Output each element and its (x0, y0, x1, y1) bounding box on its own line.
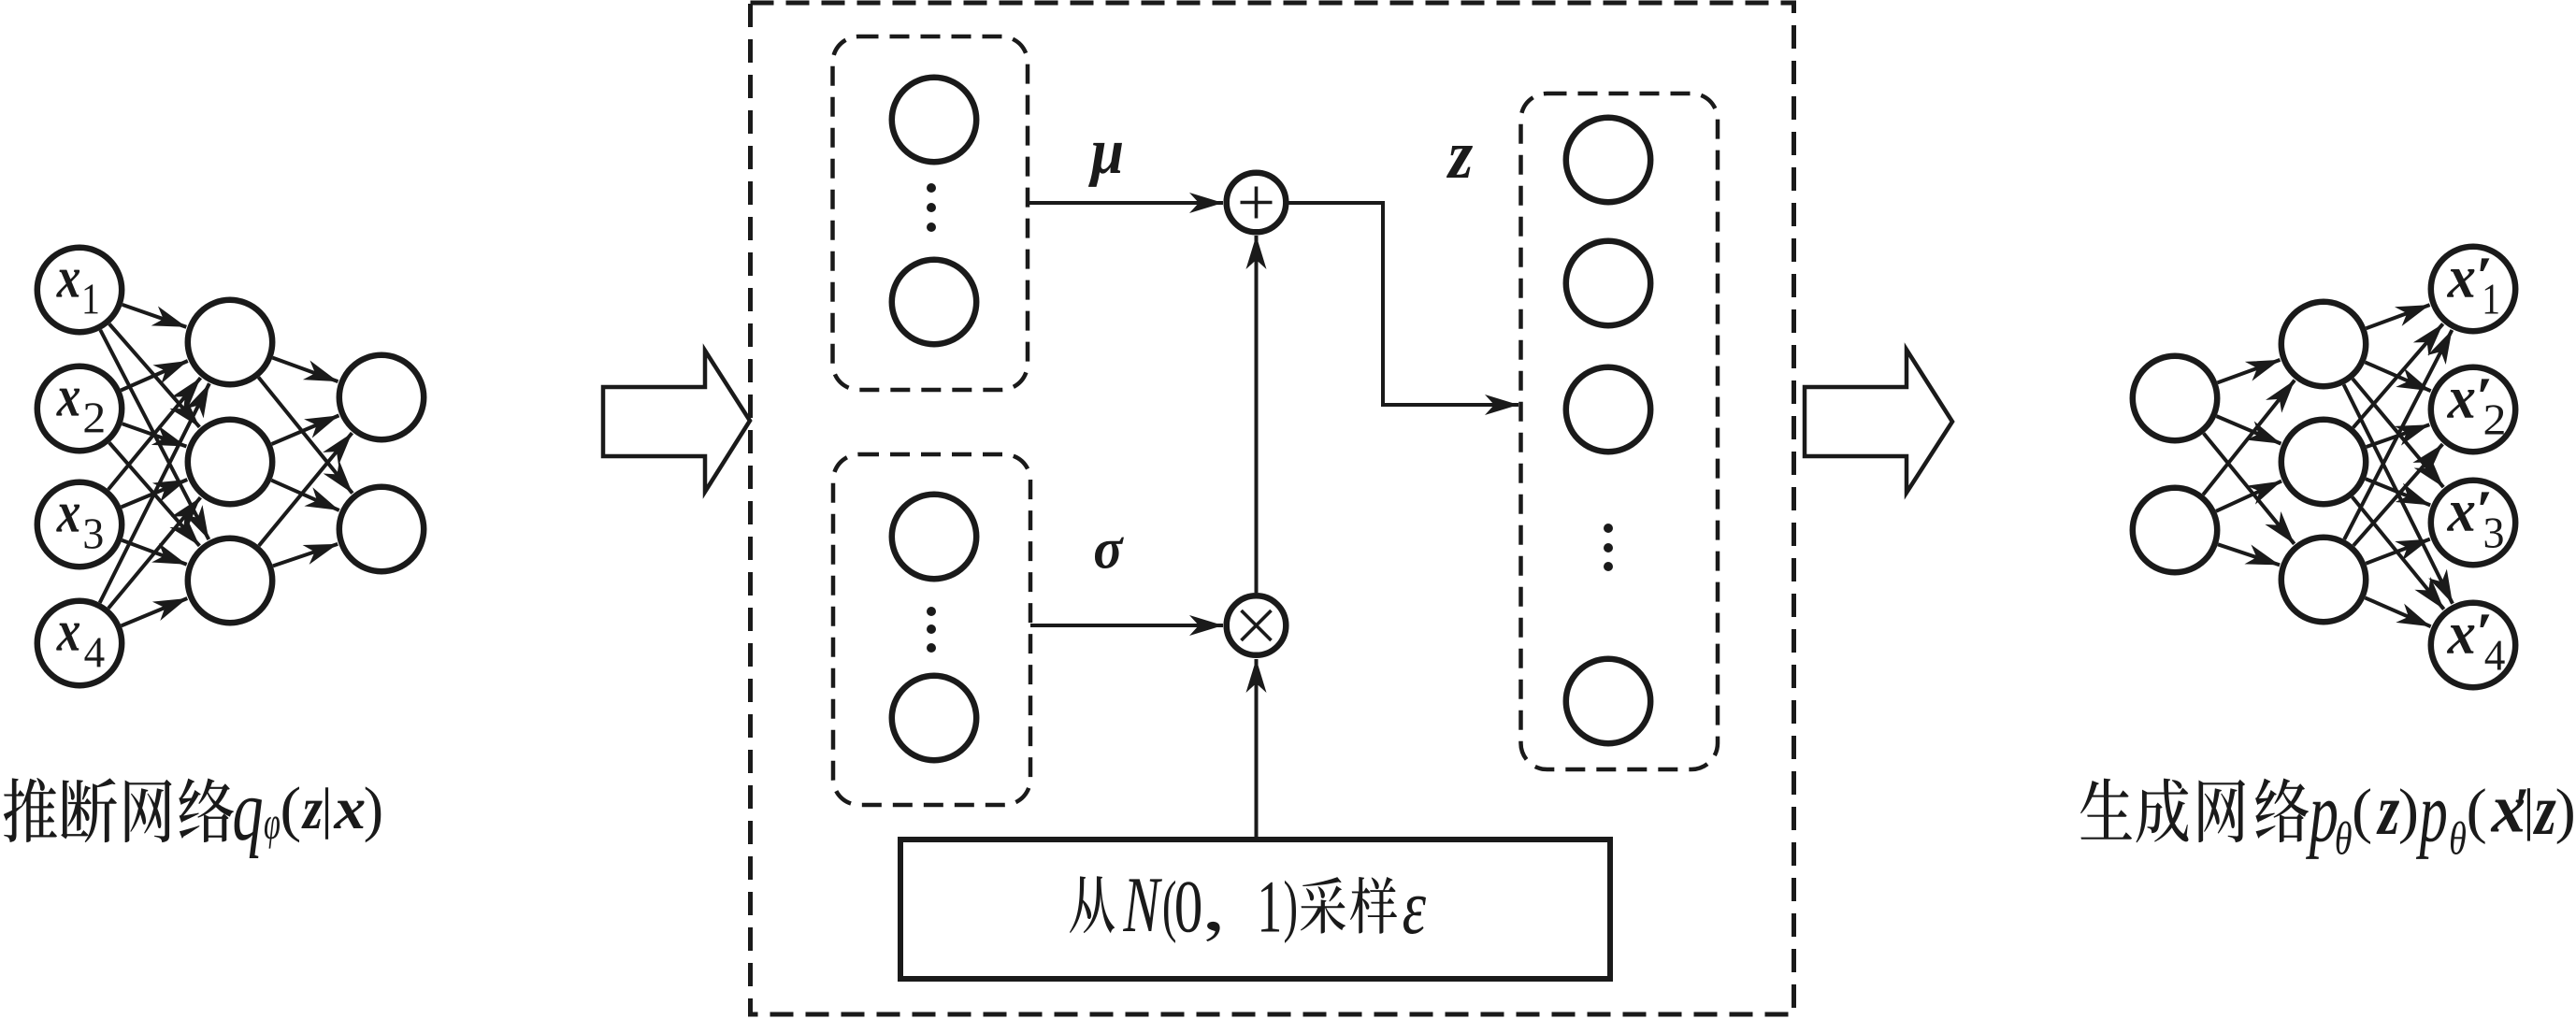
node encoder hidden 1 (188, 300, 272, 384)
op plus junction (1227, 173, 1287, 233)
wire x3-to-Lh1 (108, 378, 201, 489)
node sigma top (892, 495, 976, 579)
node z1 (1566, 118, 1650, 202)
block arrow right (1805, 350, 1952, 493)
wire plus to z (1287, 203, 1519, 405)
label x2 (56, 389, 79, 416)
node encoder hidden 3 (188, 538, 272, 623)
node decoder hidden 2 (2281, 420, 2366, 504)
wire x4-to-Lh1 (100, 383, 209, 603)
wire Ri1-to-Rh1 (2218, 360, 2281, 383)
node encoder out 2 (339, 487, 424, 571)
wire Rh1-to-xp3 (2353, 379, 2443, 487)
label sigma (1095, 538, 1124, 568)
node decoder hidden 3 (2281, 538, 2366, 622)
wire Ri1-to-Rh2 (2217, 416, 2281, 444)
label x3 (56, 505, 79, 532)
wire Rh2-to-xp4 (2353, 497, 2444, 610)
node output xp4 (2431, 603, 2515, 687)
wire Rh3-to-xp1 (2344, 330, 2452, 539)
node decoder in 1 (2133, 356, 2217, 440)
wire x2-to-Lh1 (121, 361, 188, 391)
wire Rh3-to-xp4 (2365, 597, 2430, 626)
label x1 (56, 270, 79, 297)
dots sigma (927, 607, 936, 653)
label inference network (4, 778, 381, 858)
wire x2-to-Lh3 (109, 443, 199, 546)
wire mu to plus (1028, 201, 1223, 205)
dots z (1604, 524, 1613, 571)
wire Rh1-to-xp2 (2365, 362, 2430, 391)
dashed box z layer (1521, 93, 1719, 769)
node sigma bottom (892, 676, 976, 760)
wire Ri1-to-Rh3 (2204, 434, 2295, 544)
label generative network (2080, 779, 2573, 859)
wire Ri2-to-Rh1 (2203, 380, 2295, 495)
node input x4 (37, 601, 122, 685)
wire sigma to times (1030, 624, 1223, 627)
wire x1-to-Lh2 (109, 324, 199, 427)
wire Rh1-to-xp1 (2367, 305, 2430, 328)
dashed box sigma layer (833, 454, 1030, 805)
node input x2 (37, 366, 122, 451)
label x4 (56, 624, 79, 651)
label xprime1 (2447, 269, 2475, 297)
node encoder out 1 (339, 355, 424, 439)
node input x3 (37, 482, 122, 567)
label xprime4 (2447, 625, 2475, 653)
wire Ri2-to-Rh2 (2216, 481, 2281, 511)
block arrow left (603, 351, 750, 492)
wire Rh3-to-xp2 (2353, 444, 2442, 545)
node output xp2 (2431, 367, 2515, 452)
wire x2-to-Lh2 (122, 423, 187, 446)
wire Rh2-to-xp2 (2367, 424, 2430, 447)
node z3 (1566, 367, 1650, 452)
node mu bottom (892, 260, 976, 344)
label mu (1088, 143, 1122, 187)
wire Ri2-to-Rh3 (2218, 544, 2280, 565)
wire Rh2-to-xp3 (2366, 479, 2430, 505)
wire x4-to-Lh2 (108, 497, 200, 609)
wire x1-to-Lh1 (122, 305, 187, 327)
wire x1-to-Lh3 (100, 330, 209, 539)
dashed container: reparameterization block (751, 3, 1794, 1014)
wire Lh2-to-Lo1 (272, 415, 339, 444)
node decoder in 2 (2133, 488, 2217, 572)
node input x1 (37, 248, 122, 332)
wire x3-to-Lh2 (122, 480, 188, 507)
wire Rh3-to-xp3 (2366, 539, 2430, 564)
wire x3-to-Lh3 (122, 540, 186, 565)
node mu top (892, 78, 976, 162)
node z4 (1566, 659, 1650, 743)
wire Lh3-to-Lo2 (273, 544, 338, 567)
wire x4-to-Lh3 (122, 598, 188, 625)
wire times to plus (1255, 236, 1259, 593)
label sample text (1070, 876, 1426, 943)
wire Rh2-to-xp1 (2353, 323, 2443, 427)
dashed box mu layer (833, 36, 1029, 390)
wire Lh3-to-Lo1 (259, 433, 353, 546)
label z (1446, 146, 1473, 178)
wire Lh1-to-Lo1 (273, 358, 338, 382)
box sample N(0,1) (900, 840, 1610, 979)
op times junction (1227, 596, 1287, 655)
label xprime3 (2447, 503, 2475, 531)
node encoder hidden 2 (188, 420, 272, 504)
dots mu (927, 183, 936, 232)
node output xp3 (2431, 481, 2515, 565)
wire Lh2-to-Lo2 (271, 481, 339, 510)
node decoder hidden 1 (2281, 302, 2366, 386)
wire Rh1-to-xp4 (2344, 384, 2453, 603)
label xprime2 (2447, 390, 2475, 418)
node z2 (1566, 241, 1650, 325)
node output xp1 (2431, 247, 2515, 331)
wire sample to times (1255, 659, 1259, 840)
wire Lh1-to-Lo2 (259, 378, 353, 494)
